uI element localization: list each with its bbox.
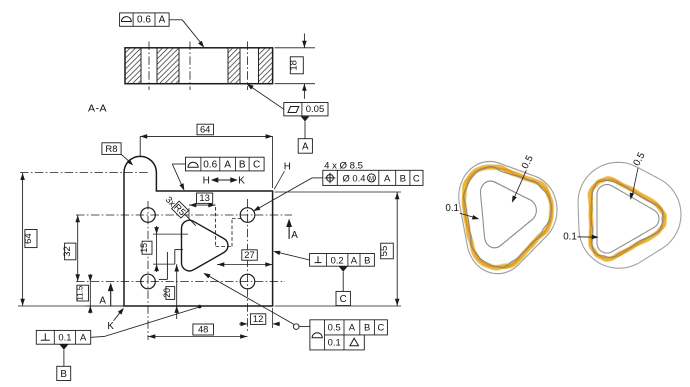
centerline top holes horizontal — [76, 214, 292, 216]
position feature control frame dia 0.4 M A B C — [323, 170, 423, 185]
perpendicularity frame 0.2 A B with leader and datum C — [310, 254, 375, 267]
leader from position frame to top-right hole — [312, 177, 323, 179]
svg-text:0.1: 0.1 — [58, 332, 71, 343]
hole bottom-left — [141, 274, 156, 289]
svg-text:0.6: 0.6 — [137, 15, 151, 26]
svg-text:48: 48 — [198, 324, 208, 335]
hatch region 4 — [259, 48, 273, 84]
feature control frame profile 0.6 A (top) — [120, 13, 170, 26]
hole edge lines in section — [140, 48, 142, 84]
dimension 18 extension lines — [275, 47, 316, 49]
svg-text:32: 32 — [62, 246, 73, 257]
svg-text:12: 12 — [253, 313, 263, 324]
tolerance zone illustration left - actual profile wavy line — [464, 167, 552, 268]
svg-text:C: C — [340, 294, 347, 305]
svg-text:0.1: 0.1 — [445, 203, 459, 214]
tolerance zone illustration left - gold band — [464, 167, 551, 268]
svg-text:18: 18 — [289, 60, 300, 71]
leader from 0.6 A frame to section top face — [169, 19, 182, 21]
composite profile frame 0.5/0.1 with balloon leader — [310, 320, 388, 350]
svg-text:64: 64 — [200, 124, 210, 135]
centerline left holes vertical — [147, 201, 149, 340]
svg-text:K: K — [238, 176, 245, 187]
svg-text:A: A — [384, 173, 391, 184]
dimension 20 — [176, 264, 178, 319]
feature control frame profile 0.6 A B C with leader — [186, 157, 265, 171]
flatness frame 0.05 — [284, 103, 328, 116]
svg-text:A: A — [99, 296, 106, 307]
svg-text:A: A — [224, 160, 231, 171]
dimension 13 — [188, 208, 190, 219]
dimension 27 — [217, 264, 273, 266]
perpendicularity frame 0.1 A with leader dot and datum B — [36, 330, 90, 344]
svg-text:H: H — [284, 162, 291, 173]
svg-text:C: C — [253, 160, 260, 171]
svg-text:0.1: 0.1 — [563, 232, 577, 243]
dimension 55 right — [275, 191, 402, 193]
svg-text:B: B — [400, 173, 406, 184]
tolerance zone illustration left - inner boundary — [481, 181, 537, 248]
label R8 with leader — [102, 143, 121, 155]
svg-text:C: C — [378, 322, 385, 333]
hidden step lines right of triangle — [215, 207, 217, 247]
svg-text:0.1: 0.1 — [328, 337, 341, 348]
section centerline right hole — [247, 42, 249, 91]
svg-text:20: 20 — [162, 288, 172, 298]
centerline right holes vertical — [247, 199, 249, 331]
dimension 15 — [153, 233, 188, 235]
svg-text:A: A — [302, 142, 309, 153]
svg-text:C: C — [413, 173, 420, 184]
section arrow A left — [110, 285, 112, 306]
section view A-A hatched body — [125, 48, 273, 84]
svg-text:Ø 0.4: Ø 0.4 — [343, 172, 366, 183]
tolerance zone illustration left - outer boundary — [459, 162, 557, 274]
svg-text:A-A: A-A — [88, 103, 107, 115]
svg-text:13: 13 — [199, 192, 209, 203]
hole top-left — [141, 208, 156, 223]
leader from flatness frame to section bottom face — [248, 85, 284, 109]
svg-text:64: 64 — [23, 233, 34, 244]
svg-text:0.05: 0.05 — [306, 104, 325, 115]
dimension 32 left — [77, 215, 79, 282]
dimension 18 boxed text — [290, 57, 303, 74]
svg-text:A: A — [159, 15, 166, 26]
svg-text:0.6: 0.6 — [203, 160, 217, 171]
svg-text:B: B — [60, 369, 67, 380]
part outline with R8 ear — [124, 156, 273, 306]
dimension 64 left — [18, 305, 124, 307]
datum A symbol below flatness frame — [301, 116, 310, 121]
tolerance zone illustration right - actual profile wavy line — [591, 180, 663, 257]
svg-text:A: A — [351, 254, 358, 265]
svg-text:15: 15 — [139, 243, 149, 253]
tolerance zone illustration right - outer boundary — [578, 162, 681, 268]
hole bottom-right — [240, 274, 255, 289]
hatch region 2 — [157, 48, 179, 84]
svg-text:H: H — [203, 176, 210, 187]
triangular cutout 3x R5 — [181, 220, 227, 271]
svg-text:R8: R8 — [105, 144, 117, 155]
dimension 12 — [272, 308, 274, 328]
svg-text:B: B — [364, 322, 370, 333]
label 3x R5 rotated with leader — [164, 195, 178, 209]
section arrow A right — [288, 221, 290, 239]
datum C symbol — [339, 267, 348, 272]
dimension 64 top — [139, 136, 141, 156]
centerline bottom holes horizontal — [76, 281, 285, 283]
dimension 18 line with outside arrows — [303, 34, 305, 48]
hatch region 1 — [125, 48, 141, 84]
solid step lines left of triangle — [174, 250, 176, 265]
section centerline left hole — [148, 42, 150, 91]
centerline bump horizontal — [20, 172, 150, 174]
svg-text:A: A — [349, 322, 356, 333]
tolerance zone illustration right - inner boundary — [597, 185, 659, 253]
dimension 48 — [148, 336, 248, 338]
tolerance zone illustration right - gold band — [590, 179, 665, 260]
svg-text:0.2: 0.2 — [331, 254, 344, 265]
svg-text:A: A — [80, 332, 87, 343]
svg-text:11.5: 11.5 — [76, 285, 85, 301]
svg-text:55: 55 — [379, 246, 390, 257]
hole top-right — [240, 208, 255, 223]
svg-text:A: A — [291, 230, 298, 241]
hatch region 3 — [228, 48, 240, 84]
svg-text:0.5: 0.5 — [328, 322, 341, 333]
svg-text:K: K — [107, 321, 114, 332]
section centerline middle — [189, 42, 191, 91]
balloon circle on leader — [293, 324, 299, 330]
svg-text:B: B — [239, 160, 246, 171]
svg-text:27: 27 — [244, 249, 254, 260]
svg-text:M: M — [369, 176, 374, 182]
svg-text:B: B — [364, 254, 370, 265]
dimension 11.5 left — [85, 305, 124, 307]
datum B symbol — [60, 345, 69, 350]
